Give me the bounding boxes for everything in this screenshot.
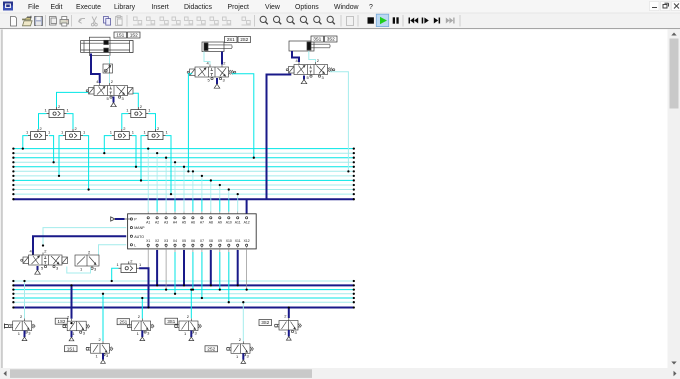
svg-text:X11: X11 xyxy=(235,239,241,243)
toolbar icon: reset xyxy=(409,18,419,24)
valve 2S2 3/2 xyxy=(227,337,254,359)
svg-text:X6: X6 xyxy=(191,239,195,243)
wire OR leaf 1 to band xyxy=(22,136,28,150)
wire X outputs cyan xyxy=(174,252,230,303)
svg-text:Insert: Insert xyxy=(152,4,169,11)
shuttle valve V_OR_B3 xyxy=(110,126,135,140)
label 1S1 xyxy=(65,346,78,352)
source arrow to P port xyxy=(111,217,130,221)
toolbar icon: step xyxy=(422,18,429,24)
push button of 0S1 xyxy=(5,324,9,329)
label 2S1 xyxy=(225,37,238,43)
svg-text:Didactics: Didactics xyxy=(184,4,213,11)
module U1 sequencer block xyxy=(128,214,257,249)
svg-text:L: L xyxy=(134,243,136,247)
toolbar icon: ffwd (disabled) xyxy=(446,18,455,24)
valve 1V1 5/2 xyxy=(86,79,133,101)
wire valve3 supply navy xyxy=(267,75,292,200)
toolbar icon: new xyxy=(11,17,17,27)
svg-text:Execute: Execute xyxy=(76,4,101,11)
node column lower band left ends xyxy=(12,280,14,309)
wire drop to 2S1 xyxy=(141,297,143,319)
valve 0V1 5/2 xyxy=(21,249,68,271)
cylinder 3A xyxy=(289,41,330,51)
wire cyl3 right port xyxy=(309,51,316,62)
svg-text:X9: X9 xyxy=(218,239,222,243)
wire block input staircase xyxy=(147,147,247,216)
svg-text:A11: A11 xyxy=(235,220,241,224)
toolbar icon: cut (disabled) xyxy=(91,17,97,26)
wire OR A2 to B3 xyxy=(122,114,128,129)
valve 1S2 3/2 xyxy=(63,314,90,336)
toolbar icon: page setup xyxy=(50,17,57,26)
exhaust of 0V1 xyxy=(35,266,41,274)
wire OR leaf 3 to band xyxy=(58,136,63,177)
svg-text:1S2: 1S2 xyxy=(58,319,66,324)
svg-text:A7: A7 xyxy=(200,220,204,224)
svg-text:X4: X4 xyxy=(173,239,177,243)
wire OR leaf 7 to band xyxy=(140,136,146,182)
svg-text:Project: Project xyxy=(228,4,250,11)
node column lower band right ends xyxy=(353,280,355,309)
svg-text:AUTO: AUTO xyxy=(134,235,144,239)
wire X outputs gray comb xyxy=(148,247,248,291)
toolbar icon: stop xyxy=(368,17,374,23)
svg-text:A8: A8 xyxy=(209,220,213,224)
wire 0V2 under loop xyxy=(67,267,91,274)
node column upper band left ends xyxy=(12,147,14,200)
svg-text:A5: A5 xyxy=(182,220,186,224)
svg-text:A1: A1 xyxy=(146,220,150,224)
toolbar xyxy=(0,13,680,30)
toolbar icon: play (active) xyxy=(376,14,388,26)
label 1S1 xyxy=(114,32,127,38)
svg-text:MANP: MANP xyxy=(134,226,145,230)
toolbar icons: zoom group xyxy=(260,16,268,24)
svg-text:A9: A9 xyxy=(218,220,222,224)
exhaust of 1S2 xyxy=(69,331,74,341)
wire lower distribution lines xyxy=(13,281,353,308)
exhaust of 3S1 xyxy=(189,331,194,341)
svg-text:View: View xyxy=(265,4,280,11)
svg-text:A3: A3 xyxy=(164,220,168,224)
toolbar icon: copy xyxy=(104,17,111,26)
svg-text:A10: A10 xyxy=(226,220,232,224)
valve 2S1 3/2 xyxy=(127,314,154,336)
svg-text:X7: X7 xyxy=(200,239,204,243)
wire valve1 to OR A1 xyxy=(57,92,89,107)
svg-text:X2: X2 xyxy=(155,239,159,243)
wire OR leaf 6 to band xyxy=(132,136,137,168)
label 3S1 xyxy=(311,36,324,42)
svg-text:?: ? xyxy=(369,4,373,11)
svg-text:File: File xyxy=(28,4,39,11)
toolbar icon: open xyxy=(23,16,33,26)
toolbar icon: paste (disabled) xyxy=(116,16,123,26)
wire OR A1 to B1 xyxy=(39,114,47,129)
exhaust of 0S1 xyxy=(22,331,27,341)
wire OR leaf 2 to band xyxy=(49,136,55,164)
app icon xyxy=(3,2,13,11)
shuttle valve V_OR_A1 xyxy=(45,104,70,118)
toolbar icon: print xyxy=(60,17,69,27)
svg-text:1S1: 1S1 xyxy=(116,33,124,38)
wire valve1 to OR A2 xyxy=(133,93,139,107)
exhaust of 1V1 xyxy=(111,97,117,107)
svg-text:A2: A2 xyxy=(155,220,159,224)
wire cyl2 right port xyxy=(221,52,223,65)
svg-text:Edit: Edit xyxy=(51,4,63,11)
label 2S2 xyxy=(238,37,251,43)
toolbar icon: undo (disabled) xyxy=(79,19,85,24)
label 3S2 xyxy=(259,320,272,326)
MDI window buttons xyxy=(650,2,680,11)
svg-text:A6: A6 xyxy=(191,220,195,224)
svg-text:X5: X5 xyxy=(182,239,186,243)
shuttle valve V_OR_B2 xyxy=(61,126,86,140)
exhaust of 3V1 xyxy=(301,76,307,84)
wire OR A1 to B2 xyxy=(67,114,73,129)
svg-text:3S1: 3S1 xyxy=(313,37,321,42)
wire drop to 1S2 xyxy=(70,284,72,318)
valve 2V1 5/2 xyxy=(187,61,236,83)
toolbar icon: grayed doc xyxy=(347,17,354,26)
svg-text:1S1: 1S1 xyxy=(67,346,75,351)
exhaust of 3S2 xyxy=(286,330,291,340)
wire OR leaf 5 to band xyxy=(103,136,112,155)
svg-text:3S2: 3S2 xyxy=(261,320,269,325)
wire drop to 3S2 xyxy=(288,306,290,318)
svg-text:X8: X8 xyxy=(209,239,213,243)
menu bar xyxy=(0,0,680,13)
shuttle valve V_OR_B1 xyxy=(26,126,51,140)
wire drop to 1S1 xyxy=(102,293,104,342)
svg-text:X10: X10 xyxy=(226,239,232,243)
svg-text:A12: A12 xyxy=(244,220,250,224)
svg-text:Window: Window xyxy=(334,4,359,11)
label 1S2 xyxy=(55,318,67,324)
cylinder 2A xyxy=(202,42,232,52)
svg-text:2S2: 2S2 xyxy=(240,37,248,42)
wire drop to 0S1 xyxy=(23,280,25,319)
svg-text:2S1: 2S1 xyxy=(119,319,127,324)
svg-text:Options: Options xyxy=(295,4,319,11)
wire 0V3 left to band xyxy=(111,268,119,282)
toolbar icons: align group (disabled) xyxy=(133,17,142,25)
wire MANP line xyxy=(42,228,126,247)
wire drop to 2S2 xyxy=(242,301,244,341)
wire OR A2 to B4 xyxy=(148,114,155,129)
wire valve2 output loop xyxy=(232,74,255,159)
wire cyl1 right port xyxy=(109,55,111,64)
svg-text:X1: X1 xyxy=(146,239,150,243)
wire OR leaf 4 to band xyxy=(83,136,90,191)
wire valve2 supply drop xyxy=(187,74,192,173)
valve 0V2 3/2 xyxy=(75,250,99,272)
vertical scrollbar xyxy=(668,30,680,369)
label 3S2 xyxy=(325,36,338,42)
label 3S1 xyxy=(165,318,178,324)
valve 0S1 3/2 xyxy=(8,314,35,336)
wire AUTO line xyxy=(33,236,126,255)
shuttle valve V_OR_A2 xyxy=(126,104,151,118)
wire upper distribution lines xyxy=(13,149,353,200)
exhaust of 2S2 xyxy=(241,353,246,363)
exhaust of 2S1 xyxy=(140,331,145,341)
svg-text:X3: X3 xyxy=(164,239,168,243)
wire cyl3 left port xyxy=(292,51,299,62)
svg-text:3S1: 3S1 xyxy=(167,319,175,324)
wire OR leaf 8 to band xyxy=(166,136,173,196)
toolbar icon: to end xyxy=(434,18,440,24)
label 2S2 xyxy=(205,346,218,352)
label 1S2 xyxy=(128,32,141,38)
toolbar icon: pause xyxy=(393,17,399,23)
wire L line xyxy=(99,245,127,259)
shuttle valve V_OR_B4 xyxy=(144,126,169,140)
shuttle valve 0V3 xyxy=(117,259,143,273)
node column upper band right ends xyxy=(353,147,355,200)
exhaust of 1S1 xyxy=(101,353,106,363)
valve 3S2 3/2 xyxy=(275,314,302,336)
wire 0V3 right to band xyxy=(139,268,150,308)
wire X outputs navy xyxy=(156,250,239,287)
wire valve3 output loop xyxy=(330,72,350,173)
wire drop to 3S1 xyxy=(190,288,192,318)
svg-text:Library: Library xyxy=(114,4,136,11)
svg-text:2S2: 2S2 xyxy=(207,347,215,352)
valve 1S1 3/2 xyxy=(86,337,113,359)
svg-text:3S2: 3S2 xyxy=(327,37,335,42)
wire cyl1 left port xyxy=(91,54,100,84)
exhaust of 2V1 xyxy=(214,78,220,88)
svg-text:A4: A4 xyxy=(173,220,177,224)
horizontal scrollbar xyxy=(0,368,680,379)
svg-text:1S2: 1S2 xyxy=(130,33,138,38)
svg-text:X12: X12 xyxy=(244,239,250,243)
label 2S1 xyxy=(117,319,130,325)
toolbar icon: save xyxy=(35,17,43,26)
menu items xyxy=(28,4,373,11)
cylinder 1A (linear drive) xyxy=(81,37,133,55)
node on 1S2 wire xyxy=(70,322,72,324)
flow control valve 1V2 xyxy=(103,64,113,73)
valve 3V1 5/2 xyxy=(286,58,335,80)
valve 3S1 3/2 xyxy=(175,314,202,336)
wire cyl2 left port xyxy=(204,52,210,65)
svg-text:2S1: 2S1 xyxy=(227,37,235,42)
